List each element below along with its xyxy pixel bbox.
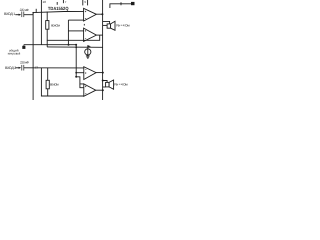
junction dot amp3 out bbox=[102, 72, 104, 74]
resistor R2 bottom lead bbox=[47, 89, 49, 96]
op-amp A4 bbox=[84, 84, 96, 96]
wire input2 arrow bbox=[15, 67, 19, 69]
op-amp A1 polarity marks bbox=[85, 11, 86, 18]
op-amp A1 bbox=[84, 8, 97, 21]
junction dot amp3 input bbox=[75, 72, 77, 74]
wire W2 input2 bus bbox=[24, 67, 84, 69]
pin stub tick bbox=[56, 2, 58, 5]
wire input1 arrow bbox=[15, 14, 19, 16]
speaker BA2 bbox=[106, 82, 110, 87]
wire vertical pin 18 bbox=[40, 0, 42, 45]
junction dot V76 end bbox=[75, 76, 77, 78]
terminal square common bbox=[23, 45, 25, 46]
junction node input1 bbox=[32, 12, 34, 14]
wire vertical output rail V102 bbox=[102, 0, 104, 100]
wire speaker2 top jog bbox=[103, 81, 107, 83]
wire vertical V76 bbox=[75, 45, 77, 77]
op-amp A2 polarity marks bbox=[85, 30, 86, 38]
wire feedback loop H40 bbox=[47, 35, 100, 40]
wire vertical V41 lower with corner bbox=[41, 68, 83, 96]
op-amp A3 polarity marks bbox=[85, 70, 86, 74]
resistor R1 body bbox=[46, 21, 49, 30]
op-amp A4 polarity marks bbox=[85, 86, 86, 94]
wire supply top right bbox=[110, 4, 134, 8]
wire vertical V33 bbox=[32, 13, 34, 100]
resistor R2 60k top lead bbox=[47, 68, 49, 80]
wire amp2 noninv input bbox=[68, 30, 83, 32]
wire amp3 output bbox=[96, 72, 103, 74]
svg-text:60 кОм: 60 кОм bbox=[51, 23, 61, 27]
svg-text:18: 18 bbox=[43, 0, 47, 4]
wire amp2 output bbox=[96, 34, 102, 36]
svg-text:ВХОД 1: ВХОД 1 bbox=[4, 12, 15, 16]
resistor R1 bottom lead bbox=[46, 29, 48, 47]
op-amp A3 bbox=[84, 67, 96, 80]
pin tick on supply wire bbox=[120, 2, 122, 5]
resistor R1 60k top lead bbox=[46, 12, 48, 21]
ground chassis symbol bbox=[87, 45, 89, 56]
junction dot V76 bus bbox=[75, 44, 77, 46]
wire amp1 inverting input bbox=[68, 19, 83, 21]
svg-text:220 нФ: 220 нФ bbox=[20, 8, 30, 12]
wire amp3 lower input bbox=[76, 72, 84, 74]
junction dot V68 bus bbox=[68, 44, 70, 46]
wire W1 top input bus bbox=[33, 11, 84, 12]
svg-text:TDA1552Q: TDA1552Q bbox=[48, 6, 69, 11]
wire speaker2 bottom bbox=[103, 86, 106, 88]
tick between amps bbox=[83, 24, 85, 26]
wire speaker1 top jog bbox=[103, 21, 110, 24]
wire amp4 input jog bbox=[76, 77, 84, 84]
svg-text:60 кОм: 60 кОм bbox=[50, 82, 60, 86]
svg-text:Rн = 4 Ом: Rн = 4 Ом bbox=[116, 24, 130, 28]
pin tick on W1 bbox=[35, 9, 37, 13]
capacitor C2 220nF bbox=[21, 65, 23, 71]
svg-text:Rн = 4 Ом: Rн = 4 Ом bbox=[114, 83, 128, 87]
svg-text:13: 13 bbox=[35, 66, 39, 70]
wire ground bus H44 bbox=[24, 44, 76, 46]
capacitor C1 220nF bbox=[21, 12, 23, 18]
junction dot amp1 out bbox=[101, 13, 103, 15]
wire speaker1 left bbox=[103, 24, 108, 26]
wire amp4 output bbox=[96, 89, 103, 91]
pin stub 9 bbox=[82, 0, 84, 5]
wire vertical V68 bbox=[67, 20, 69, 45]
svg-text:минусовый: минусовый bbox=[8, 52, 21, 56]
speaker BA1 bbox=[107, 24, 111, 28]
wire bus H47 bbox=[47, 46, 103, 48]
svg-text:ВХОД 2: ВХОД 2 bbox=[5, 66, 16, 70]
op-amp A2 bbox=[84, 28, 97, 41]
wire amp4 lower input branch bbox=[80, 84, 84, 88]
junction dot speaker2 top bbox=[102, 80, 104, 82]
pin stub 7 bbox=[62, 0, 64, 3]
resistor R2 body bbox=[46, 80, 49, 89]
junction dot V76 H47 bbox=[75, 46, 77, 48]
wire C1 to node bbox=[24, 14, 33, 16]
wire amp1 output bbox=[96, 13, 102, 15]
pin stub bbox=[87, 0, 89, 5]
svg-text:220 нФ: 220 нФ bbox=[20, 61, 29, 65]
terminal square supply bbox=[131, 2, 135, 5]
junction dot amp4 out bbox=[102, 89, 104, 91]
